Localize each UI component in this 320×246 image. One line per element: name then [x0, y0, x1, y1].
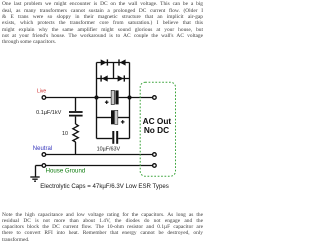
capacitor C4 10uF/63V [113, 131, 117, 144]
wire house ground line left stub [36, 165, 43, 167]
terminal Live [42, 96, 46, 100]
capacitor C1 0.1uF/1kV [69, 112, 83, 116]
diode D2 [118, 59, 125, 65]
label 0.1uF/1kV [36, 110, 62, 116]
svg-text:No DC: No DC [144, 125, 169, 135]
svg-text:0.1µF/1kV: 0.1µF/1kV [36, 110, 62, 116]
wire branch2 left [97, 117, 112, 119]
label 10 [62, 131, 68, 137]
label 10uF/63V [97, 147, 121, 153]
terminal House Ground [42, 164, 46, 168]
capacitor C2 electrolytic plus-left [111, 90, 118, 104]
bottom paragraph [2, 212, 203, 244]
wire diode box left vertical [96, 63, 98, 98]
terminal AC Out ground [153, 164, 157, 168]
svg-text:House Ground: House Ground [46, 168, 86, 175]
wire house ground line [46, 165, 152, 167]
svg-text:10: 10 [62, 131, 68, 137]
diode D4 [118, 75, 125, 81]
wire left vertical to lower branches [96, 98, 98, 139]
ground symbol [30, 166, 39, 182]
label Neutral [33, 146, 52, 152]
wire resistor to neutral [75, 142, 77, 155]
diode D3 [100, 75, 107, 81]
wire RC snubber branch vertical [75, 98, 77, 112]
terminal Neutral [42, 153, 46, 157]
polarity plus C3 [121, 120, 125, 124]
label Live [37, 89, 46, 95]
wire right vertical to lower branches [129, 98, 131, 139]
junction right node [127, 95, 131, 99]
diode D1 [101, 59, 108, 65]
svg-text:10µF/63V: 10µF/63V [97, 147, 121, 153]
wire diode box top [97, 62, 130, 64]
polarity plus C2 [105, 100, 109, 104]
top paragraph [2, 1, 203, 45]
dashed box AC Out [140, 82, 175, 176]
junction left node [94, 95, 98, 99]
wire branch2 right [118, 117, 130, 119]
label House Ground [46, 168, 86, 175]
wire branch3 right [118, 138, 129, 140]
wire Live line right segment [119, 97, 153, 99]
wire Neutral line [46, 154, 152, 156]
terminal AC Out live [153, 96, 157, 100]
wire branch3 left [97, 138, 113, 140]
wire diode box right vertical [129, 63, 131, 98]
svg-text:Neutral: Neutral [33, 146, 52, 152]
wire cap to resistor [75, 117, 77, 124]
svg-text:Live: Live [37, 89, 46, 95]
wire diode box middle [97, 78, 130, 80]
wire diode box center vertical [113, 63, 115, 79]
resistor R1 10 ohm [73, 124, 78, 142]
caption under schematic [2, 183, 207, 190]
terminal AC Out neutral [153, 153, 157, 157]
wire Live line left segment [46, 97, 111, 99]
capacitor C3 electrolytic plus-right [111, 110, 118, 124]
label AC Out [143, 116, 172, 126]
label No DC [144, 125, 169, 135]
